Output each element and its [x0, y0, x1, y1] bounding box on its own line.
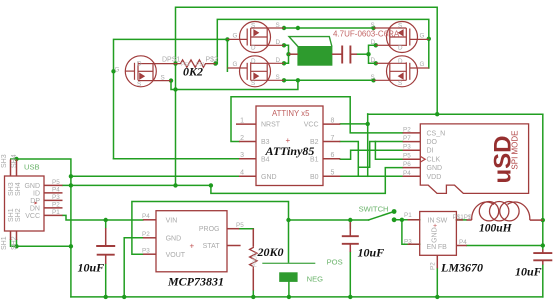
svg-text:P5: P5: [52, 179, 60, 186]
svg-text:D: D: [398, 58, 403, 65]
svg-text:P3: P3: [403, 144, 411, 151]
svg-text:VIN: VIN: [166, 217, 178, 224]
svg-text:P4: P4: [459, 239, 467, 246]
svg-text:GND: GND: [24, 183, 40, 190]
svg-text:SH1: SH1: [1, 236, 8, 250]
svg-text:DO: DO: [427, 139, 438, 146]
svg-text:4.7UF-0603-C6RA: 4.7UF-0603-C6RA: [333, 30, 400, 39]
svg-text:ATTiny85: ATTiny85: [265, 144, 315, 158]
svg-text:PROG: PROG: [253, 252, 259, 267]
svg-text:G: G: [420, 61, 425, 68]
svg-text:S: S: [137, 81, 141, 88]
svg-text:FB: FB: [438, 244, 447, 251]
svg-text:▸: ▸: [35, 200, 38, 206]
svg-text:P1: P1: [404, 212, 412, 219]
svg-text:G: G: [115, 67, 120, 74]
svg-text:10uF: 10uF: [515, 265, 542, 279]
svg-text:CLK: CLK: [427, 157, 441, 164]
svg-text:S: S: [251, 80, 255, 87]
svg-text:USB: USB: [24, 163, 40, 172]
svg-text:VDD: VDD: [427, 174, 442, 181]
svg-text:P2: P2: [403, 126, 411, 133]
svg-text:P3: P3: [52, 194, 60, 201]
svg-text:P5: P5: [403, 153, 411, 160]
svg-text:P5: P5: [236, 222, 244, 229]
svg-text:P7: P7: [403, 135, 411, 142]
svg-text:P2: P2: [52, 202, 60, 209]
svg-text:PROG: PROG: [199, 226, 220, 233]
svg-text:SPI MODE: SPI MODE: [511, 130, 520, 169]
svg-text:S: S: [371, 22, 375, 29]
svg-text:POS: POS: [327, 258, 343, 267]
svg-text:P6: P6: [403, 161, 411, 168]
svg-text:P$1P$: P$1P$: [453, 214, 472, 221]
svg-text:P2: P2: [142, 231, 150, 238]
svg-text:D: D: [371, 57, 376, 64]
svg-text:STAT: STAT: [203, 243, 221, 250]
svg-text:6: 6: [331, 152, 335, 159]
svg-text:3: 3: [240, 152, 244, 159]
svg-text:S: S: [398, 23, 402, 30]
svg-text:GND: GND: [166, 235, 182, 242]
svg-text:D: D: [251, 45, 256, 52]
svg-text:LM3670: LM3670: [440, 261, 483, 275]
svg-text:B0: B0: [310, 174, 319, 181]
svg-text:SH2: SH2: [11, 236, 18, 250]
svg-text:VOUT: VOUT: [166, 252, 186, 259]
svg-text:4: 4: [240, 170, 244, 177]
svg-text:MCP73831: MCP73831: [167, 275, 224, 289]
svg-text:P4: P4: [403, 170, 411, 177]
svg-text:SH3: SH3: [1, 154, 8, 168]
svg-text:+: +: [190, 241, 195, 250]
svg-text:1: 1: [240, 117, 244, 124]
svg-text:0K2: 0K2: [183, 65, 203, 79]
svg-text:NRST: NRST: [261, 122, 281, 129]
svg-text:VCC: VCC: [304, 122, 319, 129]
svg-text:S: S: [276, 74, 280, 81]
svg-text:DPS1: DPS1: [162, 57, 180, 64]
svg-text:P4: P4: [142, 213, 150, 220]
svg-text:VCC: VCC: [25, 213, 40, 220]
svg-text:DN: DN: [30, 206, 40, 213]
svg-text:S: S: [251, 23, 255, 30]
svg-text:DI: DI: [427, 148, 434, 155]
svg-text:P2: P2: [430, 262, 437, 270]
svg-text:P4: P4: [52, 187, 60, 194]
svg-text:SWITCH: SWITCH: [359, 204, 389, 213]
svg-text:EN: EN: [427, 244, 437, 251]
svg-text:SH1: SH1: [8, 208, 15, 222]
svg-text:SH4: SH4: [11, 154, 18, 168]
svg-text:D: D: [276, 39, 281, 46]
svg-text:7: 7: [331, 135, 335, 142]
svg-text:D: D: [398, 45, 403, 52]
svg-text:P3: P3: [404, 239, 412, 246]
svg-text:2: 2: [240, 135, 244, 142]
svg-text:S: S: [371, 74, 375, 81]
svg-text:P3: P3: [142, 247, 150, 254]
svg-text:D: D: [371, 39, 376, 46]
svg-text:GND: GND: [427, 165, 443, 172]
svg-text:SW: SW: [436, 218, 448, 225]
svg-text:G: G: [420, 32, 425, 39]
svg-text:D: D: [137, 60, 142, 67]
svg-text:+: +: [286, 136, 291, 145]
svg-text:S: S: [398, 80, 402, 87]
svg-text:SH2: SH2: [15, 208, 22, 222]
svg-text:10uF: 10uF: [78, 261, 105, 275]
svg-text:SH3: SH3: [8, 182, 15, 196]
svg-text:5: 5: [331, 170, 335, 177]
svg-text:NEG: NEG: [307, 275, 324, 284]
svg-text:S: S: [161, 75, 165, 82]
svg-text:ATTINY x5: ATTINY x5: [272, 109, 310, 118]
svg-text:D: D: [276, 57, 281, 64]
svg-text:8: 8: [331, 117, 335, 124]
svg-text:G: G: [233, 32, 238, 39]
svg-text:20K0: 20K0: [257, 245, 284, 259]
svg-text:100uH: 100uH: [479, 223, 513, 235]
svg-text:D: D: [251, 58, 256, 65]
svg-text:10uF: 10uF: [358, 246, 385, 260]
svg-text:GND: GND: [261, 174, 277, 181]
svg-text:S: S: [276, 22, 280, 29]
svg-text:G: G: [233, 61, 238, 68]
svg-text:SH4: SH4: [15, 182, 22, 196]
svg-text:ID: ID: [33, 191, 40, 198]
svg-text:P$2: P$2: [206, 57, 219, 64]
svg-text:P1: P1: [52, 209, 60, 216]
svg-text:+: +: [433, 223, 437, 230]
svg-text:CS_N: CS_N: [427, 130, 446, 137]
